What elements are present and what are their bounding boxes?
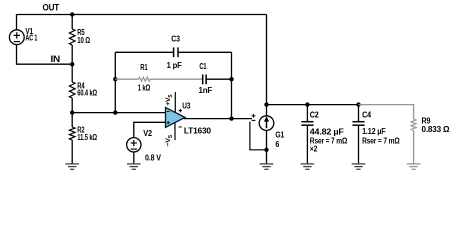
supply stub +VS [174,92,176,112]
svg-text:×2: ×2 [310,143,318,153]
svg-text:V2: V2 [143,128,152,138]
resistor R1 (gray) [138,62,151,93]
node C2 junction [305,102,309,106]
wire G1 column [266,15,268,116]
wire inverting rail [72,112,165,114]
node C4 junction [356,102,360,106]
wire top rail OUT [17,15,267,30]
resistor R2 [69,113,97,164]
svg-text:0.833 Ω: 0.833 Ω [422,124,450,134]
svg-text:AC 1: AC 1 [25,32,37,42]
current source G1 [250,114,285,150]
svg-text:11.5 kΩ: 11.5 kΩ [77,132,97,142]
wire G1 minus return [250,122,267,150]
svg-text:OUT: OUT [43,3,60,13]
svg-text:60.4 kΩ: 60.4 kΩ [77,88,97,98]
svg-text:Rser = 7 mΩ: Rser = 7 mΩ [362,135,400,145]
ground R9 (gray) [407,164,421,169]
node rail junction [264,102,268,106]
ground R2 [65,164,79,169]
node IN junction [70,62,74,66]
svg-text:LT1630: LT1630 [184,125,211,135]
wire feedback middle (gray) [115,78,138,80]
ground G1 [260,164,274,169]
wire V2 bottom [133,152,135,164]
svg-text:R1: R1 [140,62,147,72]
wire op-amp output [184,118,253,120]
node fb-right junction [229,77,233,81]
ground C4 [352,164,366,169]
svg-text:10 Ω: 10 Ω [77,35,90,45]
capacitor C2 [301,105,347,164]
node R1 tap junction [113,77,117,81]
node output junction [229,116,233,120]
resistor R5 [69,15,90,65]
node FB junction (R4/R2/wire) [70,110,74,114]
svg-text:U3: U3 [182,101,190,111]
svg-text:C2: C2 [310,109,319,119]
svg-text:1nF: 1nF [199,85,213,95]
svg-text:IN: IN [51,54,61,64]
capacitor C1 [199,61,213,95]
ground C2 [301,164,315,169]
op-amp U3 LT1630 [165,92,211,146]
wire feedback left vertical [114,52,116,112]
wire C1 to fb-right [206,78,231,80]
svg-text:1 kΩ: 1 kΩ [138,82,151,92]
svg-text:C1: C1 [199,61,206,71]
resistor R4 [69,64,97,112]
ground V2 [127,164,141,169]
node fb-left junction [113,110,117,114]
wire V1 bottom to IN rail [17,45,73,65]
supply stub -VS [174,123,176,141]
node G1 bottom junction [264,148,268,152]
capacitor C3 [167,33,182,70]
voltage source V1 [9,26,37,45]
svg-text:C4: C4 [362,110,371,120]
svg-text:0.8 V: 0.8 V [145,153,161,163]
wire V2 to op-amp +in [134,122,166,137]
svg-text:1 pF: 1 pF [167,60,182,70]
capacitor C4 [352,105,399,164]
svg-text:C3: C3 [171,33,180,43]
wire to R9 (gray) [359,105,414,119]
svg-text:6: 6 [275,139,279,149]
wire output rail [267,104,359,106]
node OUT junction [70,12,74,16]
wire R1 to C1 (gray) [150,78,202,80]
resistor R9 (gray) [411,115,449,163]
voltage source V2 [127,128,162,163]
wire feedback right vertical [231,52,233,118]
wire feedback top (C3 branch) [115,51,173,53]
